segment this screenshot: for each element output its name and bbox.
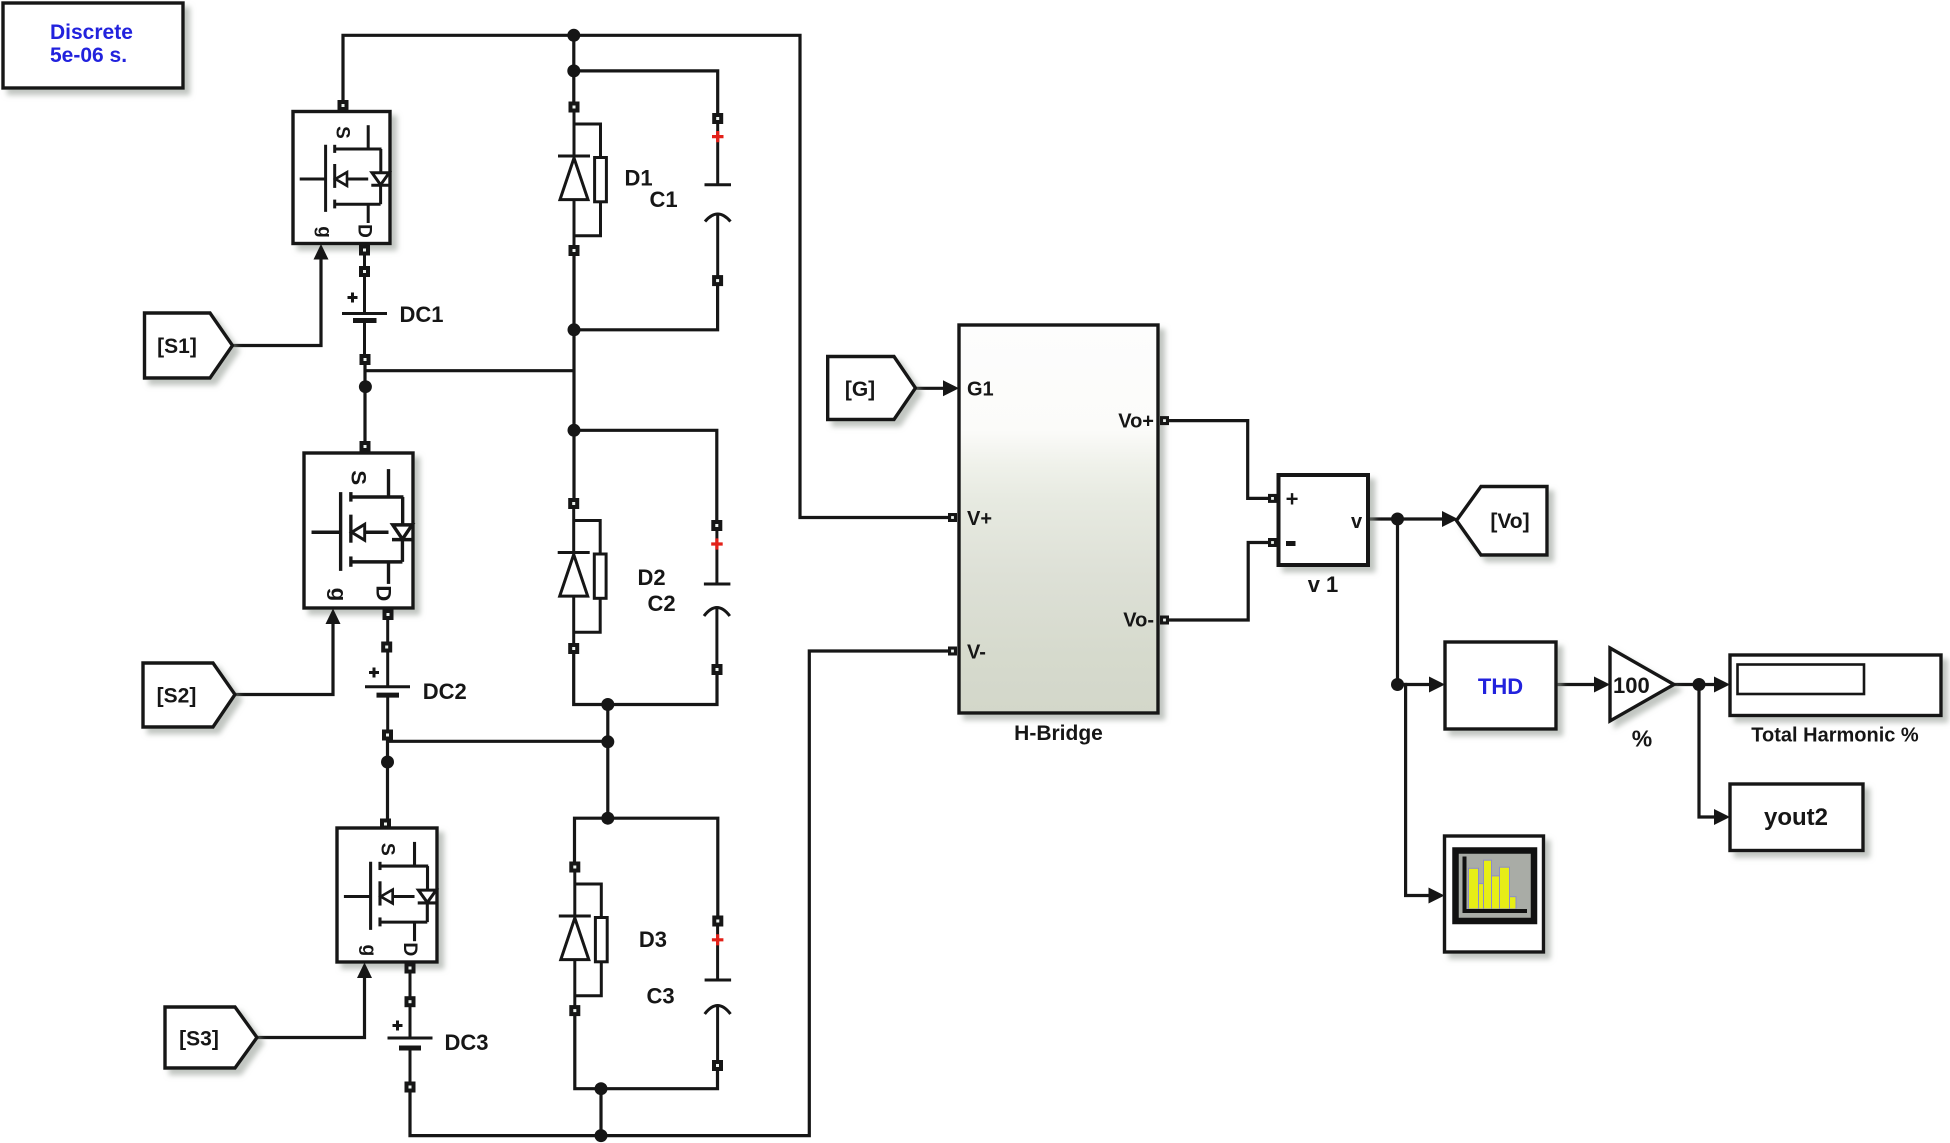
node stage2 top junction	[568, 424, 581, 437]
wire top rail to D1/C1 branch	[572, 35, 575, 71]
svg-text:[S1]: [S1]	[157, 335, 197, 358]
svg-text:yout2: yout2	[1764, 804, 1828, 831]
svg-text:Vo-: Vo-	[1123, 610, 1154, 632]
svg-text:100: 100	[1613, 673, 1650, 698]
wire stage2 branch to D2 anode	[572, 430, 575, 498]
wire G tag to H-Bridge G1	[916, 387, 944, 390]
to-workspace yout2	[1714, 784, 1863, 851]
wire bottom rail DC3 minus to H-Bridge V-	[410, 651, 948, 1136]
svg-text:v 1: v 1	[1308, 572, 1339, 597]
wire junction down to yout2	[1699, 685, 1716, 818]
wire branch to D1 anode	[572, 71, 575, 102]
pin V-	[948, 647, 957, 656]
wire branch to C1 top	[574, 71, 718, 113]
svg-text:V-: V-	[967, 642, 986, 664]
transistor M1 (Mosfet)	[293, 100, 390, 260]
node DC1 branch dot	[359, 380, 372, 393]
pin Vo-	[1160, 616, 1169, 625]
svg-text:[S2]: [S2]	[157, 685, 197, 708]
node DC2 branch dot on column	[601, 735, 614, 748]
svg-text:[G]: [G]	[845, 378, 875, 401]
display Total Harmonic %	[1714, 655, 1941, 747]
goto tag [Vo]	[1442, 487, 1547, 556]
wire middle column down to stage2	[572, 330, 575, 431]
svg-text:THD: THD	[1478, 674, 1523, 699]
svg-text:C1: C1	[650, 187, 678, 212]
wire S2 tag to M2 gate	[235, 623, 333, 695]
wire gain output to display	[1674, 683, 1717, 686]
wire DC2 minus branch right	[388, 741, 608, 820]
svg-text:C2: C2	[647, 591, 675, 616]
node bottom rail junction	[595, 1129, 608, 1142]
svg-text:[Vo]: [Vo]	[1490, 510, 1529, 533]
battery DC2	[365, 619, 467, 741]
node D2-C2 bottom junction	[601, 698, 614, 711]
svg-text:Total Harmonic %: Total Harmonic %	[1751, 725, 1919, 747]
svg-text:Discrete: Discrete	[50, 21, 133, 44]
battery DC3	[388, 973, 489, 1093]
wire D2 cathode to C2 bottom rail	[574, 654, 717, 705]
wire H-Bridge Vo+ to v1 plus	[1169, 421, 1268, 499]
wire junction to THD input	[1398, 683, 1431, 686]
node gain output junction	[1693, 678, 1706, 691]
subsystem H-Bridge	[943, 325, 1169, 745]
svg-text:C3: C3	[646, 984, 674, 1009]
node branch junction	[567, 64, 580, 77]
from tag [G]	[828, 357, 916, 420]
node stage3 top junction	[601, 812, 614, 825]
node top rail junction	[567, 29, 580, 42]
svg-text:G1: G1	[967, 379, 994, 401]
svg-text:D2: D2	[637, 565, 665, 590]
wire stage2 branch to C2 top	[574, 430, 717, 520]
wire S1 tag to M1 gate	[233, 258, 322, 346]
pin Vo+	[1160, 416, 1169, 425]
wire junction down to scope	[1398, 685, 1431, 896]
wire v1 output to Vo tag	[1368, 517, 1443, 520]
battery DC1	[342, 255, 444, 365]
svg-text:DC2: DC2	[423, 679, 467, 704]
svg-text:DC3: DC3	[444, 1030, 488, 1055]
block THD	[1429, 642, 1556, 729]
transistor M2 (Mosfet1)	[304, 441, 413, 624]
svg-text:Vo+: Vo+	[1118, 411, 1154, 433]
svg-text:v: v	[1351, 511, 1363, 533]
diode D2 with parallel resistor	[558, 498, 666, 654]
wire stage3 branch to C3 top	[608, 818, 718, 915]
transistor M3 (Mosfet2)	[337, 819, 437, 979]
wire H-Bridge Vo- to v1 minus	[1169, 543, 1268, 621]
from tag [S2]	[143, 663, 235, 727]
wire D3 cathode to C3 bottom rail	[575, 1016, 718, 1089]
svg-text:+: +	[1286, 487, 1299, 512]
pin V+	[948, 513, 957, 522]
svg-text:V+: V+	[967, 508, 992, 530]
diode D1 with parallel resistor	[558, 102, 653, 257]
diode D3 with parallel resistor	[559, 862, 667, 1017]
svg-text:D3: D3	[639, 927, 667, 952]
wire THD output to gain input	[1556, 683, 1596, 686]
node D1-C1 bottom junction	[568, 323, 581, 336]
node v1 output junction	[1391, 513, 1404, 526]
wire stage3 branch to D3 anode	[575, 818, 608, 861]
wire D1 cathode to C1 bottom rail	[574, 256, 718, 330]
gain 100	[1594, 648, 1674, 752]
wire junction down to THD level	[1396, 519, 1399, 685]
svg-text:H-Bridge: H-Bridge	[1014, 722, 1103, 745]
scope	[1429, 836, 1544, 952]
wire DC1 minus branch to middle column	[365, 365, 574, 442]
capacitor C3	[646, 916, 731, 1072]
svg-text:DC1: DC1	[399, 302, 443, 327]
wire top rail M1 source to H-Bridge V+	[343, 35, 948, 517]
wire S3 tag to M3 gate	[257, 976, 365, 1038]
wire junction down to DC2 branch level	[606, 705, 609, 819]
svg-text:5e-06 s.: 5e-06 s.	[50, 44, 127, 67]
voltage measurement v1	[1268, 475, 1368, 597]
pin G1	[943, 380, 959, 396]
node D3-C3 bottom junction	[595, 1082, 608, 1095]
from tag [S1]	[145, 313, 233, 378]
svg-text:D1: D1	[625, 166, 653, 191]
svg-text:[S3]: [S3]	[179, 1028, 219, 1051]
svg-text:%: %	[1632, 726, 1652, 752]
capacitor C2	[647, 520, 730, 675]
node DC2 branch dot left	[381, 756, 394, 769]
node THD branch junction	[1391, 678, 1404, 691]
wire junction down to bottom rail	[599, 1089, 602, 1136]
from tag [S3]	[165, 1007, 257, 1068]
annotation Discrete 5e-06 s.	[3, 3, 183, 88]
capacitor C1	[650, 113, 731, 286]
